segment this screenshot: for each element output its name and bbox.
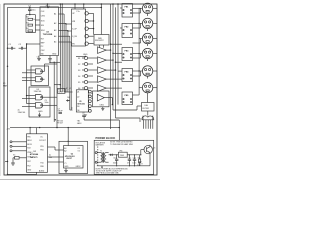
svg-text:A5: A5 xyxy=(54,41,56,44)
op-amp U7 box xyxy=(93,91,110,107)
capacitor C1 xyxy=(8,44,15,49)
svg-text:U1: U1 xyxy=(34,151,36,153)
svg-text:A2: A2 xyxy=(54,22,56,25)
resistor R4 xyxy=(26,28,32,32)
svg-text:S3: S3 xyxy=(78,70,80,72)
connector J1 xyxy=(142,3,157,16)
IC PB4 xyxy=(122,69,139,82)
buffer A4 xyxy=(98,76,123,83)
wire U1 vcc xyxy=(30,128,36,134)
svg-text:PD6: PD6 xyxy=(40,150,44,152)
ground U3 xyxy=(38,111,43,117)
ground below U4 MD xyxy=(37,56,41,61)
gate U3A xyxy=(33,69,45,74)
svg-text:S5: S5 xyxy=(78,82,80,84)
connector ISP pins xyxy=(10,141,27,152)
svg-text:VR1: VR1 xyxy=(119,150,122,152)
svg-text:10k: 10k xyxy=(49,157,52,159)
svg-text:S4: S4 xyxy=(78,76,80,78)
svg-text:1000u: 1000u xyxy=(113,163,118,165)
svg-text:TO INSULATOR HEAT SINK: TO INSULATOR HEAT SINK xyxy=(110,143,134,146)
motor M1 xyxy=(142,111,154,129)
svg-text:74HC595: 74HC595 xyxy=(77,102,85,105)
ground op-amp xyxy=(101,107,104,111)
svg-text:GND: GND xyxy=(64,166,69,168)
resistor R2 xyxy=(26,16,35,21)
connector J4 xyxy=(142,48,157,61)
svg-text:GND: GND xyxy=(27,170,32,172)
wire U1 to U2 xyxy=(48,147,64,162)
svg-text:S1: S1 xyxy=(78,58,80,60)
connector J5 xyxy=(142,66,157,79)
svg-text:74HC00: 74HC00 xyxy=(34,91,42,93)
svg-text:S6: S6 xyxy=(78,88,80,90)
wire right bus verticals xyxy=(111,3,119,129)
wire PB column vertical xyxy=(138,8,142,95)
transistor Q3 xyxy=(141,145,155,155)
wire opamp down xyxy=(84,98,119,128)
svg-text:AGND: AGND xyxy=(39,170,45,173)
wire U4 right bus verticals xyxy=(59,3,72,110)
capacitor C11 xyxy=(127,154,131,166)
IC U3A box xyxy=(31,66,49,86)
svg-text:SDI: SDI xyxy=(41,25,45,27)
svg-text:PB5: PB5 xyxy=(27,137,30,139)
wire ladder to U4 xyxy=(35,20,40,30)
capacitor C9 label xyxy=(45,100,49,104)
svg-text:GND: GND xyxy=(38,111,43,113)
wire mid bus verticals xyxy=(49,56,72,128)
component relay K1 box xyxy=(54,84,72,94)
svg-text:74HC00: 74HC00 xyxy=(18,112,26,114)
IC PB2 xyxy=(120,23,139,37)
capacitor C7 xyxy=(58,108,64,113)
diode D6 xyxy=(66,97,71,102)
crystal X1 xyxy=(13,155,27,164)
node +5V rail bottom xyxy=(6,127,119,131)
capacitor C12 xyxy=(132,155,136,166)
buffer A3 xyxy=(98,67,117,74)
power block box xyxy=(94,140,154,174)
note text Q3 xyxy=(110,142,134,146)
wire DB9 down stubs xyxy=(100,45,104,48)
buffer A1 xyxy=(98,47,112,54)
svg-text:GND: GND xyxy=(83,54,88,56)
svg-text:Q3: Q3 xyxy=(153,148,155,150)
transformer T1 xyxy=(98,151,109,163)
svg-text:ST_CP: ST_CP xyxy=(66,88,72,90)
svg-text:OSC: OSC xyxy=(41,50,46,52)
IC U6 interface xyxy=(72,3,86,46)
svg-text:Q1: Q1 xyxy=(77,92,79,94)
svg-text:CX/OUT: CX/OUT xyxy=(39,140,47,142)
svg-text:O1: O1 xyxy=(78,148,80,150)
wire right bus to DA xyxy=(113,106,142,122)
buffer A2 xyxy=(98,57,114,64)
svg-text:PD5: PD5 xyxy=(40,146,44,148)
svg-text:TMC428B: TMC428B xyxy=(43,33,53,36)
svg-text:1k: 1k xyxy=(33,19,35,21)
connector circles column P2 xyxy=(85,12,94,46)
svg-text:47u: 47u xyxy=(127,163,130,165)
wire branches to PB boxes xyxy=(110,44,122,72)
svg-text:FILTER: FILTER xyxy=(143,108,150,110)
connector J3 xyxy=(142,33,157,46)
label U3 left xyxy=(18,110,26,115)
capacitor C4 xyxy=(28,6,36,13)
diode D7 xyxy=(109,154,114,156)
svg-text:R9 4k7: R9 4k7 xyxy=(57,123,63,125)
IC PB1 xyxy=(120,4,140,18)
svg-text:Vcc: Vcc xyxy=(40,137,43,139)
svg-text:A1: A1 xyxy=(64,147,66,150)
svg-text:6N137: 6N137 xyxy=(66,158,72,160)
svg-text:BARRIER: BARRIER xyxy=(96,143,105,146)
label GND u5 xyxy=(83,114,88,116)
svg-text:MISO: MISO xyxy=(27,140,32,142)
wire left rail xyxy=(7,7,9,127)
IC VR1 7805 xyxy=(114,150,142,158)
IC DA filter xyxy=(142,95,155,111)
buffer A5 xyxy=(98,85,123,92)
capacitor C10 xyxy=(113,154,119,166)
svg-text:S2: S2 xyxy=(78,64,80,66)
label TB1 xyxy=(77,121,83,125)
note text power block xyxy=(96,168,129,174)
wire U2 top xyxy=(68,128,69,146)
svg-text:100n: 100n xyxy=(132,163,136,165)
svg-text:NAT875: NAT875 xyxy=(30,156,38,159)
svg-text:Pvcc: Pvcc xyxy=(46,5,50,7)
node VCC top rail xyxy=(8,7,103,9)
svg-text:O2: O2 xyxy=(78,151,80,153)
svg-text:A1: A1 xyxy=(54,13,56,16)
node A resistor ladder rails xyxy=(26,12,35,32)
svg-text:C8: C8 xyxy=(82,113,84,115)
IC U5 74HC595 xyxy=(76,90,88,112)
svg-text:Y1: Y1 xyxy=(64,163,66,165)
wire rail to power block xyxy=(119,127,120,140)
label GND mid xyxy=(76,54,88,57)
svg-text:RS232/PC: RS232/PC xyxy=(95,40,105,42)
svg-text:P1u: P1u xyxy=(77,11,80,13)
svg-text:CSN: CSN xyxy=(41,16,46,18)
wire PB to J second leads xyxy=(133,8,141,76)
svg-text:S_DN: S_DN xyxy=(72,36,77,38)
wire C2 node to gates xyxy=(26,43,40,48)
svg-text:GND: GND xyxy=(52,54,57,56)
scan edge smear bottom xyxy=(0,178,160,180)
svg-text:T1: T1 xyxy=(100,151,102,153)
connector J6 xyxy=(142,83,157,96)
IC U2 box xyxy=(59,141,88,173)
svg-text:A2: A2 xyxy=(64,150,66,153)
svg-text:A4: A4 xyxy=(54,35,56,38)
label P1 left xyxy=(3,83,8,88)
IC DB9 connector box xyxy=(94,35,109,46)
svg-text:PD2: PD2 xyxy=(27,165,31,167)
svg-text:POWER BLOCK: POWER BLOCK xyxy=(96,136,116,140)
svg-text:SDO: SDO xyxy=(41,30,46,32)
wire P2 to DB9 xyxy=(93,3,102,34)
note text right xyxy=(138,162,142,166)
capacitor C8 xyxy=(82,113,86,121)
resistor R8 label xyxy=(55,119,63,124)
wire pb gnd rail xyxy=(97,154,150,168)
wire gates inputs xyxy=(22,44,33,107)
svg-text:GND2: GND2 xyxy=(76,166,81,168)
border frame xyxy=(4,4,157,175)
wire gate outputs to bus xyxy=(45,64,58,105)
svg-text:100n: 100n xyxy=(45,102,49,104)
capacitor C2 xyxy=(18,44,26,49)
label isolation barrier xyxy=(96,141,106,166)
gate U3D xyxy=(32,103,47,108)
svg-text:AT90S44: AT90S44 xyxy=(30,153,39,156)
svg-text:THE PB BLOCKS HAS ONE.: THE PB BLOCKS HAS ONE. xyxy=(96,172,120,175)
wire bus to U6 xyxy=(65,23,71,31)
resistor R12 xyxy=(137,155,141,167)
ground U2 xyxy=(64,168,68,173)
ground below U4 xyxy=(48,56,52,62)
IC PB3 xyxy=(122,48,139,61)
svg-text:A3: A3 xyxy=(54,29,56,32)
label POWER BLOCK xyxy=(96,136,116,140)
connector circles column P6 xyxy=(78,56,97,90)
IC U1 AT90S4433 xyxy=(27,134,48,173)
scan edge smear left xyxy=(0,4,1,176)
gate U3C xyxy=(32,95,47,100)
gate U3B xyxy=(33,77,45,82)
svg-text:TEXT: TEXT xyxy=(138,164,142,166)
wire U1 bottom gnd xyxy=(7,172,37,175)
connector J2 xyxy=(142,18,157,31)
ground X1 xyxy=(11,163,15,165)
wire left rail bottom xyxy=(4,128,9,175)
IC PB5 xyxy=(122,92,139,105)
svg-text:Q2: Q2 xyxy=(77,96,79,98)
svg-text:S_UP: S_UP xyxy=(72,28,77,30)
connector circles U5 outputs xyxy=(88,90,92,112)
connector AC terminals xyxy=(95,152,98,164)
IC U4 TMC428 xyxy=(40,3,59,55)
resistor R3 xyxy=(26,22,32,26)
svg-text:PAR: PAR xyxy=(3,85,8,88)
svg-text:LM51: LM51 xyxy=(100,105,105,107)
svg-text:MOSI: MOSI xyxy=(27,144,32,146)
IC U3 box B xyxy=(29,87,50,117)
